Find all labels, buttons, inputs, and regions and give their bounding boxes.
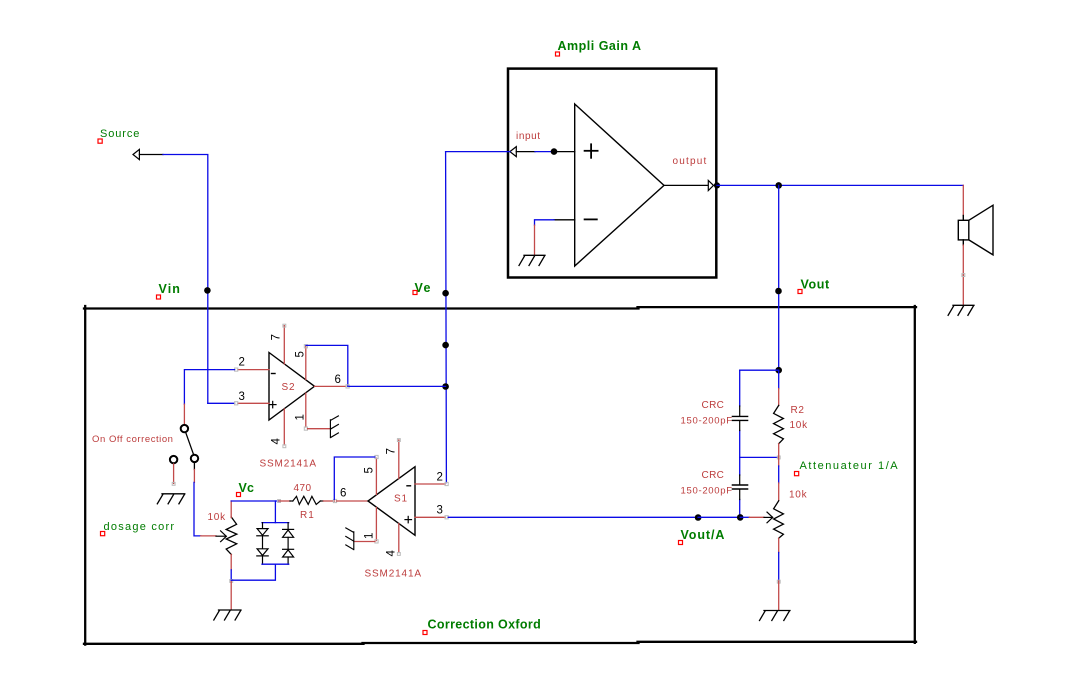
diode D3 (up) (283, 523, 294, 550)
wire Vout horizontal to speaker (717, 184, 963, 186)
ground below switch (157, 494, 185, 504)
wire minus blue segment (535, 220, 555, 225)
node Vout junction dot (775, 288, 782, 295)
terminal marker pot bottom (230, 580, 233, 583)
node Vin junction dot (204, 287, 211, 294)
svg-text:input: input (516, 131, 541, 142)
wire Ve vertical (445, 152, 448, 483)
pin 7 terminal marker S2 (283, 324, 286, 327)
resistor R2 top lead red (778, 389, 780, 406)
potentiometer RV1 10k body (226, 517, 237, 555)
svg-text:10k: 10k (790, 420, 809, 431)
wire Vc rail (231, 500, 279, 502)
Source terminal arrow (133, 149, 139, 159)
pin 3 lead S2 (238, 402, 269, 404)
attenuator bottom blue segment (778, 553, 780, 582)
pin 5 lead S1 (375, 458, 377, 494)
ground at S2 pin1 (rotated) (330, 416, 338, 438)
diode D1 (down) (257, 523, 268, 549)
wire Vc rail drop to diodes (274, 501, 276, 523)
pin 6 lead S1 (337, 500, 368, 502)
pot RV1 bottom lead (230, 555, 232, 570)
red marker square for Vout/A (679, 541, 683, 545)
svg-text:Vin: Vin (159, 282, 182, 296)
resistor R1 body 470 (293, 496, 321, 504)
op-amp S2 triangle (269, 353, 315, 421)
wire R2 to attenuator blue segment (778, 466, 780, 483)
wire switch left contact to ground (173, 464, 175, 484)
potentiometer attenuator body (774, 501, 784, 538)
wire top rail caps to R2 (740, 369, 779, 371)
svg-text:SSM2141A: SSM2141A (260, 459, 317, 470)
red marker square for Correction Oxford (423, 631, 427, 635)
red marker square for Ampli Gain A (556, 52, 560, 56)
pin 5 terminal square S2 (304, 345, 307, 348)
svg-text:5: 5 (364, 467, 376, 473)
svg-text:4: 4 (271, 438, 283, 445)
ground in Ampli box (519, 255, 545, 265)
resistor R1 lead right (red) (320, 500, 323, 502)
svg-text:5: 5 (295, 351, 307, 357)
svg-text:470: 470 (294, 483, 312, 494)
resistor R2 top lead blue (778, 370, 780, 388)
attenuator pot top lead red (778, 483, 780, 500)
node junction Vout top (775, 182, 782, 189)
wire op-amp output (664, 184, 708, 186)
pin 2 lead S2 (238, 369, 269, 371)
svg-text:3: 3 (239, 391, 245, 403)
terminal marker R2 bottom (777, 456, 780, 459)
svg-text:7: 7 (386, 448, 398, 454)
svg-text:1: 1 (364, 533, 376, 539)
red marker square for Vout (798, 290, 802, 294)
ground below speaker (948, 305, 974, 315)
node junction dot R2/cap rail (775, 367, 782, 374)
wire switch right contact red segment (193, 463, 195, 470)
pin 4 lead S1 (398, 524, 400, 553)
diode D4 (up) (283, 549, 294, 564)
svg-text:CRC: CRC (702, 400, 725, 411)
speaker LS1 (958, 205, 993, 255)
svg-text:6: 6 (340, 488, 346, 500)
wire Source to Vin (blue) (163, 155, 208, 404)
pot RV1 top lead (230, 501, 232, 518)
pin 7 lead S2 (283, 326, 285, 364)
svg-text:CRC: CRC (702, 470, 725, 481)
svg-text:S2: S2 (282, 382, 296, 393)
node junction at cap chain bottom (737, 514, 744, 521)
red marker square for Attenuateur (795, 472, 799, 476)
svg-text:Attenuateur 1/A: Attenuateur 1/A (800, 460, 900, 472)
capacitor C2 CRC (732, 475, 747, 500)
svg-text:Vout/A: Vout/A (681, 528, 726, 542)
switch SW blade (186, 432, 194, 454)
node junction Vout/A left (695, 514, 702, 521)
op-amp S1 triangle (mirrored) (368, 467, 415, 536)
pin 3 terminal square S1 (445, 516, 448, 519)
red marker square for Vc (237, 493, 241, 497)
svg-text:150-200pF: 150-200pF (681, 486, 733, 497)
resistor R1 terminal marker left (278, 500, 281, 503)
big box Correction Oxford subsystem border (84, 306, 916, 645)
wire speaker feed red segment (962, 185, 964, 215)
pin 3 lead S1 (415, 516, 445, 518)
resistor R1 lead left (279, 500, 290, 502)
resistor R2 bottom lead red (778, 444, 780, 466)
node Ve junction dot (442, 290, 449, 297)
output port arrow (708, 180, 713, 190)
op-amp A (Ampli Gain A triangle) (575, 104, 664, 266)
wire diode bridge top rail (262, 522, 289, 524)
wire red down to switch contact (183, 404, 185, 424)
wire Vout vertical (778, 185, 780, 370)
wire left cap chain vertical blue segments (739, 370, 741, 517)
wiper lead red (749, 516, 764, 518)
node junction output at box edge (714, 182, 720, 188)
pin 1 lead S2 (305, 393, 307, 427)
wiper wire blue nub (740, 516, 749, 518)
wire S1 feedback loop pin5 to pin6 (334, 457, 375, 499)
pin 1 terminal square S1 (375, 540, 378, 543)
pin 7 lead S1 (398, 440, 400, 479)
wire diode bridge bottom rail (262, 563, 289, 565)
pin 2 terminal square S1 (445, 482, 448, 485)
pin 3 terminal square S2 (235, 402, 238, 405)
svg-text:Vout: Vout (801, 278, 830, 292)
switch SW right contact (191, 455, 198, 462)
svg-text:3: 3 (437, 505, 443, 517)
node junction dot on Ve line upper (442, 342, 449, 349)
pin 4 terminal marker S2 (283, 445, 286, 448)
diode D2 (down) (257, 549, 268, 564)
wire input black segment (516, 151, 535, 153)
wiper arrowhead attenuator (767, 512, 773, 523)
svg-text:R2: R2 (791, 405, 805, 416)
ground at S1 pin1 (rotated, mirrored) (346, 528, 354, 550)
pin 4 lead S2 (283, 409, 285, 445)
wire S2 output to Ve node (349, 385, 445, 387)
red marker square for Source (98, 139, 102, 143)
attenuator bottom lead red (778, 538, 780, 552)
wire pot bottom to ground (red) (230, 582, 232, 610)
red marker square for dosage corr (101, 532, 105, 536)
terminal marker attenuator bottom (777, 580, 780, 583)
pin 2 lead S1 (415, 483, 445, 485)
svg-text:output: output (673, 156, 708, 167)
op-amp S2 plus mark (270, 401, 277, 407)
ground below dosage pot (214, 610, 241, 620)
svg-text:Correction Oxford: Correction Oxford (428, 618, 542, 632)
svg-text:Source: Source (100, 128, 140, 140)
svg-text:10k: 10k (208, 512, 227, 523)
pin 7 terminal marker S1 (397, 439, 400, 442)
op-amp S2 minus mark (272, 373, 276, 375)
wire bridge bottom to pot bottom (231, 564, 275, 580)
pin 5 terminal square S1 (375, 455, 378, 458)
pin 6 terminal square S1 (333, 499, 336, 502)
pin 4 terminal marker S1 (397, 553, 400, 556)
svg-text:2: 2 (239, 357, 245, 369)
svg-text:R1: R1 (300, 510, 315, 521)
wire S1 pin1 to ground (354, 541, 375, 543)
terminal marker below left contact (172, 482, 175, 485)
red marker square for Vin (157, 295, 161, 299)
red marker square for Ve (413, 291, 417, 295)
pin 1 lead S1 (375, 508, 377, 541)
node junction input (551, 148, 558, 155)
pin 6 terminal square S2 (346, 385, 349, 388)
svg-text:4: 4 (386, 550, 398, 557)
node junction dot at S2 output (442, 383, 449, 390)
wire switch to pot wiper (blue) (194, 482, 201, 536)
wiper arrowhead of pot 10k (221, 531, 227, 542)
svg-text:7: 7 (271, 334, 283, 340)
pin 1 terminal square S2 (304, 427, 307, 430)
op-amp S1 minus mark (407, 485, 411, 487)
svg-text:1: 1 (295, 414, 307, 420)
wire speaker to ground red (962, 245, 964, 305)
op-amp A plus symbol (585, 144, 598, 219)
terminal marker on speaker ground wire (962, 274, 965, 277)
resistor R2 body (774, 405, 784, 443)
wire S2 pin1 to ground (308, 428, 331, 430)
svg-text:On Off correction: On Off correction (92, 434, 174, 445)
switch SW top contact (181, 425, 188, 432)
wire Vin to S2 pin3 (208, 402, 235, 404)
pin 6 lead S2 (315, 385, 347, 387)
ground below attenuator (760, 611, 791, 621)
wire mid rail caps to R2 bottom (740, 456, 778, 458)
svg-text:S1: S1 (394, 494, 408, 505)
wire Ve horizontal to Ampli input (446, 151, 510, 153)
wire S2 pin2 to switch (blue) (184, 370, 234, 405)
wire input to plus pin (554, 151, 575, 153)
wiper lead red segment (201, 535, 216, 537)
wire S2 feedback loop pin5 to output (306, 345, 348, 386)
wire attenuator to ground red (778, 581, 780, 610)
svg-text:150-200pF: 150-200pF (681, 416, 733, 427)
wire minus to ground red segment (534, 225, 536, 255)
wire minus pin black segment (554, 219, 575, 221)
wire S1 pin3 to Vout/A (long blue) (448, 516, 698, 518)
pin 5 lead S2 (305, 346, 307, 379)
wire input blue segment (535, 151, 551, 153)
svg-text:10k: 10k (789, 490, 808, 501)
wire pot bottom blue segment (230, 570, 232, 580)
wire Source black segment (139, 154, 163, 156)
input port arrow (510, 147, 516, 157)
svg-text:6: 6 (335, 374, 341, 386)
switch SW left contact (170, 456, 177, 463)
op-amp S1 plus mark (405, 516, 412, 522)
capacitor C1 CRC (732, 406, 747, 431)
svg-text:SSM2141A: SSM2141A (365, 569, 422, 580)
Ampli Gain A box border (508, 69, 716, 278)
svg-text:dosage corr: dosage corr (104, 521, 176, 533)
pin 2 terminal square S2 (235, 368, 238, 371)
svg-text:Ampli Gain A: Ampli Gain A (558, 39, 642, 53)
svg-text:2: 2 (437, 471, 443, 483)
wire Vout/A to wiper (698, 516, 740, 518)
